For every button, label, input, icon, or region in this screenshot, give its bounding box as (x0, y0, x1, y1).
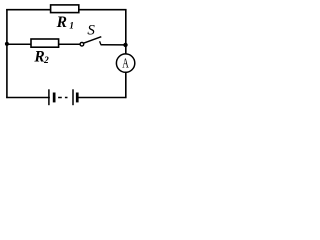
battery dash 1 (58, 97, 62, 99)
wire right vertical (125, 9, 127, 98)
wire left vertical (6, 9, 8, 98)
svg-text:A: A (122, 57, 129, 71)
battery cell 2 plate long (72, 89, 74, 105)
wire middle branch right (101, 44, 126, 46)
resistor R1 (51, 5, 79, 13)
battery dash 2 (65, 97, 68, 99)
node junction right (123, 43, 127, 47)
battery cell 2 plate short thick (76, 93, 79, 103)
battery gap white (50, 96, 78, 99)
wire middle branch left (7, 43, 80, 45)
battery cell 1 plate short thick (53, 93, 56, 103)
svg-text:2: 2 (43, 56, 49, 66)
wire bottom horizontal (6, 97, 126, 99)
switch S contact circle (80, 42, 84, 46)
resistor R2 (31, 39, 59, 47)
node junction left (5, 42, 9, 46)
switch S lever (84, 37, 102, 44)
battery cell 1 plate long (48, 89, 50, 105)
svg-text:R: R (56, 14, 67, 31)
ammeter A (116, 54, 134, 72)
wire top horizontal (6, 9, 126, 11)
svg-text:S: S (87, 23, 95, 39)
svg-text:1: 1 (69, 22, 74, 32)
switch S fixed contact nub (100, 41, 101, 44)
